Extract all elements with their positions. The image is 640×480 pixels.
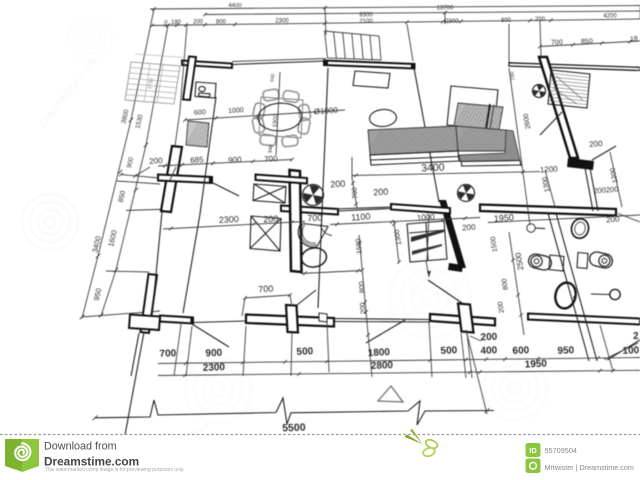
svg-text:Download from: Download from — [44, 441, 117, 453]
svg-text:This watermarked comp image is: This watermarked comp image is for previ… — [45, 467, 184, 473]
svg-text:ID: ID — [529, 446, 537, 455]
svg-text:55709504: 55709504 — [545, 446, 577, 455]
svg-text:Mrtwister | Dreamstime.com: Mrtwister | Dreamstime.com — [545, 463, 634, 472]
